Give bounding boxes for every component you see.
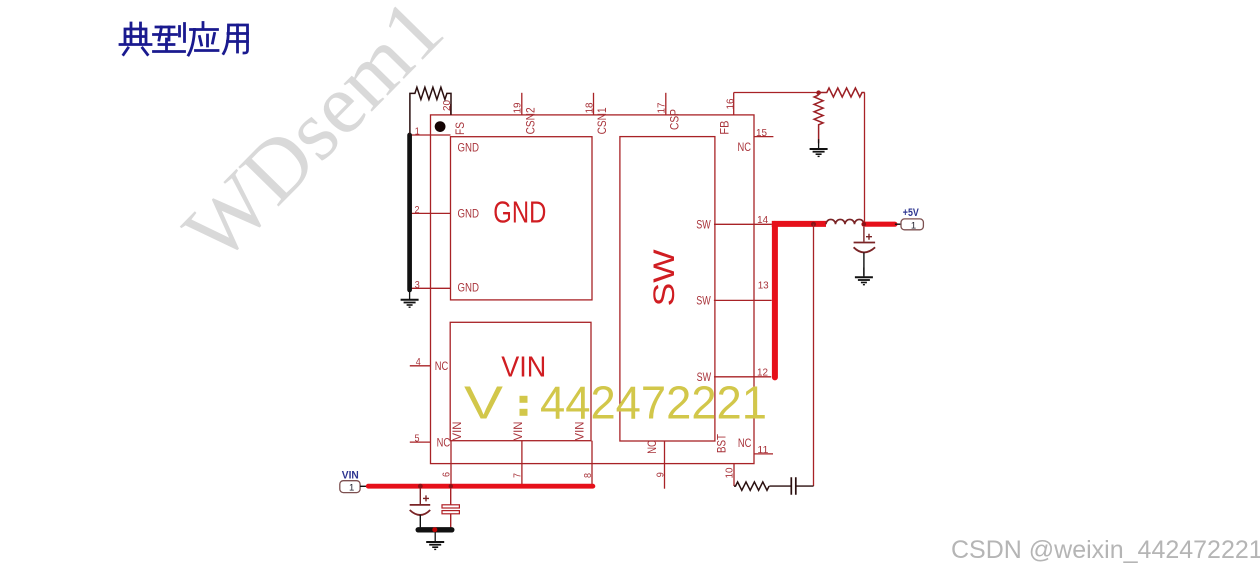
capacitor C2 (input bulk, polarized) — [410, 488, 431, 527]
ground symbol at GND bus — [401, 290, 419, 307]
junction VIN cap — [418, 484, 423, 489]
svg-text:GND: GND — [458, 143, 480, 155]
capacitor C4 (bootstrap) — [769, 477, 795, 494]
svg-text:GND: GND — [493, 194, 546, 229]
svg-text:13: 13 — [758, 279, 769, 291]
svg-text:SW: SW — [648, 249, 681, 307]
lead to +5V terminal — [895, 223, 901, 225]
capacitor C1 (+5V output, polarized) — [854, 227, 876, 276]
pin 3 (GND) — [410, 279, 479, 295]
thick black ground bar — [418, 527, 452, 532]
resistor R1 (FS setting, pin1 to pin20) — [410, 87, 451, 135]
pin 14 (SW) — [696, 214, 772, 231]
thick wire SW net: vertical bar pins 14-13-12 — [772, 224, 778, 378]
resistor R4 (bootstrap) — [734, 482, 769, 490]
svg-text:CSP: CSP — [670, 109, 682, 130]
svg-text:1: 1 — [911, 220, 916, 231]
pin 1 marker dot — [435, 121, 446, 132]
GND block label — [493, 194, 546, 229]
junction SW/BST — [811, 222, 816, 227]
svg-text:NC: NC — [738, 438, 752, 450]
svg-text:9: 9 — [654, 472, 666, 477]
thick wire +5V node — [864, 222, 895, 227]
用 — [224, 25, 248, 54]
svg-text:3: 3 — [415, 279, 420, 291]
svg-text:442472221: 442472221 — [540, 377, 767, 429]
wire BST net bottom — [796, 485, 814, 487]
wire FB sense down to +5V node — [864, 93, 866, 225]
svg-text:SW: SW — [696, 296, 711, 308]
lead VIN terminal to wire — [360, 485, 368, 487]
pin 13 (SW) — [696, 279, 771, 307]
junction +5V node — [862, 222, 866, 226]
pin 8 (VIN) — [574, 422, 594, 486]
pin 6 (VIN) — [441, 422, 465, 486]
pin 12 (SW) — [697, 367, 772, 384]
svg-text:1: 1 — [349, 483, 354, 494]
capacitor C3 (input ceramic) — [442, 488, 459, 527]
watermark V: 442472221 — [464, 377, 767, 429]
junction FB node — [816, 90, 821, 95]
pin 2 (GND) — [410, 204, 479, 220]
pin 20 (FS) — [441, 100, 467, 135]
thick wire VIN net — [368, 484, 593, 489]
svg-text:NC: NC — [437, 438, 451, 450]
svg-text:19: 19 — [512, 102, 524, 113]
GND bus thick black wire (pins 1-3) — [407, 135, 412, 290]
pin 1 (GND) — [410, 126, 479, 155]
pin 5 (NC) — [410, 433, 450, 450]
svg-text:16: 16 — [725, 98, 737, 109]
resistor R3 (FB upper divider) — [819, 88, 865, 97]
pin 7 (VIN) — [511, 422, 525, 486]
IC outer body U1 — [431, 115, 755, 464]
SW block label — [648, 249, 681, 307]
svg-text:7: 7 — [511, 473, 523, 478]
pin 15 (NC) — [738, 127, 774, 154]
svg-text:1: 1 — [415, 126, 420, 138]
junction pin 6 / input ceramic cap — [449, 484, 453, 488]
svg-text:NC: NC — [435, 361, 449, 373]
title 典型应用 (hand-drawn hanzi) — [0, 0, 270, 70]
svg-text:SW: SW — [696, 219, 711, 231]
terminal +5V — [901, 207, 923, 231]
wire pin16 FB node — [734, 92, 819, 94]
svg-text:NC: NC — [738, 142, 752, 154]
svg-text:+5V: +5V — [903, 207, 920, 219]
resistor R2 (FB lower divider) — [814, 95, 823, 143]
svg-text:15: 15 — [756, 127, 767, 139]
svg-text:14: 14 — [757, 214, 768, 226]
svg-text:V: V — [464, 377, 503, 429]
svg-text:VIN: VIN — [452, 422, 464, 441]
pin 11 (NC) — [738, 438, 773, 456]
svg-text:NC: NC — [647, 440, 659, 454]
watermark CSDN @weixin_442472221 — [951, 536, 1260, 565]
svg-text:4: 4 — [416, 356, 421, 368]
pin 17 (CSP) — [656, 93, 682, 130]
svg-text:VIN: VIN — [513, 422, 525, 441]
pin 18 (CSN1) — [584, 93, 610, 135]
terminal VIN — [340, 469, 360, 493]
ground symbol at input caps — [426, 532, 444, 549]
svg-text:GND: GND — [458, 283, 480, 295]
svg-text:5: 5 — [415, 433, 420, 445]
ground symbol at C1 — [855, 268, 873, 285]
svg-text:17: 17 — [656, 102, 668, 113]
svg-text:FB: FB — [719, 120, 731, 134]
GND unit block — [451, 137, 593, 300]
VIN unit block — [450, 322, 591, 440]
junction ground bar — [432, 527, 437, 532]
pin 19 (CSN2) — [512, 93, 538, 135]
svg-text:8: 8 — [582, 473, 594, 478]
pin 9 (NC) — [647, 440, 667, 488]
svg-text:11: 11 — [757, 444, 768, 456]
svg-text:CSN2: CSN2 — [526, 107, 538, 134]
型 — [154, 24, 185, 52]
svg-text:18: 18 — [584, 102, 596, 113]
svg-text:2: 2 — [415, 204, 420, 216]
pin 16 (FB) — [719, 93, 736, 135]
svg-text:6: 6 — [441, 472, 453, 477]
watermark WDsem1 — [312, 129, 314, 131]
VIN block label — [501, 351, 546, 383]
thick wire SW net: pin14 to inductor — [772, 221, 826, 227]
典 — [120, 23, 151, 55]
ground symbol at R2 — [810, 139, 828, 156]
svg-text:CSN1: CSN1 — [597, 107, 609, 134]
svg-text:GND: GND — [458, 208, 480, 220]
应 — [189, 23, 219, 56]
pin 4 (NC) — [410, 356, 449, 373]
wire BST net vertical — [813, 224, 815, 486]
svg-text:BST: BST — [717, 434, 729, 453]
SW unit block — [620, 137, 715, 441]
pin 10 (BST) — [717, 434, 736, 486]
inductor L1 — [826, 219, 864, 224]
svg-text:FS: FS — [455, 122, 467, 135]
svg-text:10: 10 — [723, 467, 735, 478]
svg-text:VIN: VIN — [342, 469, 359, 481]
